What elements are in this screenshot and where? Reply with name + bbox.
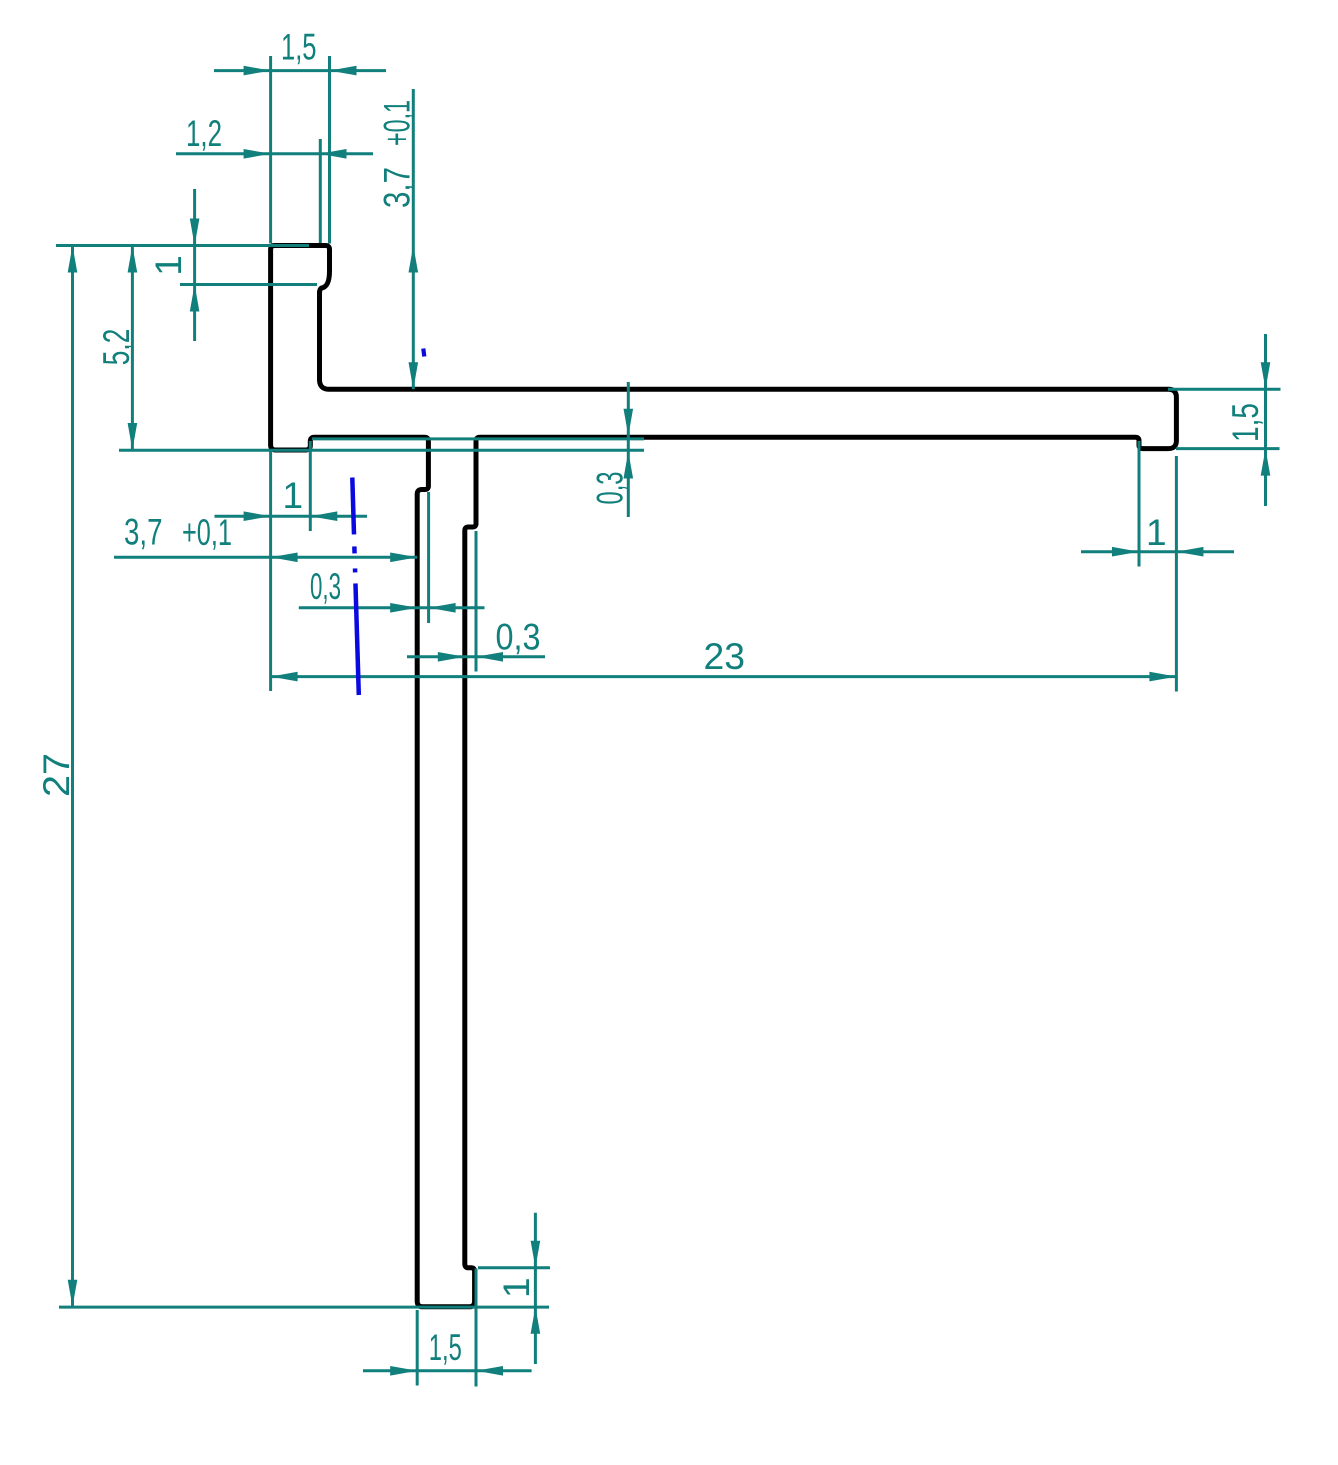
svg-text:1: 1 — [283, 475, 304, 516]
svg-text:3,7: 3,7 — [377, 167, 418, 208]
svg-text:1,5: 1,5 — [1225, 403, 1266, 442]
svg-text:5,2: 5,2 — [96, 329, 137, 366]
svg-text:+0,1: +0,1 — [182, 512, 232, 553]
svg-text:1,5: 1,5 — [429, 1327, 462, 1368]
svg-text:23: 23 — [704, 636, 746, 677]
svg-text:3,7: 3,7 — [124, 512, 163, 553]
svg-text:1: 1 — [1146, 512, 1167, 553]
svg-text:1: 1 — [148, 255, 189, 276]
svg-text:0,3: 0,3 — [496, 617, 541, 658]
svg-text:1,2: 1,2 — [186, 113, 222, 154]
svg-text:+0,1: +0,1 — [377, 100, 418, 146]
svg-text:1: 1 — [496, 1277, 537, 1298]
svg-text:0,3: 0,3 — [310, 566, 341, 607]
svg-text:27: 27 — [36, 753, 77, 797]
svg-text:0,3: 0,3 — [590, 472, 631, 505]
svg-text:1,5: 1,5 — [281, 27, 317, 68]
